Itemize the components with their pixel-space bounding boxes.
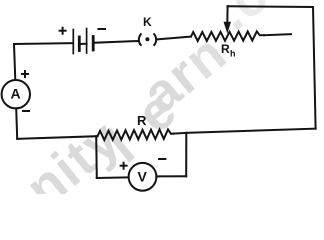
svg-text:h: h <box>230 49 236 59</box>
voltmeter branch left horizontal <box>97 176 129 179</box>
label + voltmeter left <box>120 165 128 167</box>
ammeter A circle <box>2 80 30 108</box>
svg-text:R: R <box>137 113 147 128</box>
key contact dot <box>145 37 149 41</box>
battery cell 1 positive plate <box>72 30 74 54</box>
wire battery to key <box>93 41 137 43</box>
rheostat wiper arrow stem and top wire <box>226 6 228 23</box>
rheostat wiper arrowhead <box>224 22 232 34</box>
rheostat Rh zigzag <box>191 31 264 41</box>
label + ammeter top <box>21 73 29 75</box>
rheostat right stub wire <box>264 34 291 35</box>
wire ammeter bottom to bottom-left corner <box>16 108 17 139</box>
battery cell 2 negative plate <box>92 37 95 51</box>
wire key to rheostat <box>157 37 191 40</box>
resistor R zigzag <box>98 129 175 140</box>
svg-text:V: V <box>138 168 148 184</box>
svg-text:nitylearn.c: nitylearn.c <box>3 0 301 194</box>
label + battery left <box>59 30 67 32</box>
wire top-left horizontal from corner to battery <box>14 42 73 45</box>
svg-text:R: R <box>221 42 230 56</box>
label - battery right <box>98 28 107 30</box>
battery cell 1 negative plate <box>78 37 81 51</box>
voltmeter branch right horizontal <box>156 175 186 177</box>
key K: parentheses with dot <box>139 34 141 45</box>
bottom wire left segment <box>17 136 97 139</box>
voltmeter V circle <box>129 163 157 191</box>
label - ammeter bottom <box>22 110 30 112</box>
svg-text:A: A <box>11 85 21 101</box>
bottom wire right segment <box>186 129 315 133</box>
voltmeter branch left vertical <box>95 136 98 178</box>
wire left vertical corner to ammeter top <box>14 44 15 80</box>
voltmeter branch right vertical <box>185 133 187 176</box>
label - voltmeter right <box>158 158 166 160</box>
bottom wire resistor-to-right-branch segment <box>174 132 186 135</box>
wire between battery cells <box>79 43 86 45</box>
battery cell 2 positive plate <box>86 29 88 54</box>
svg-text:K: K <box>143 15 152 29</box>
right side vertical wire <box>313 7 316 129</box>
